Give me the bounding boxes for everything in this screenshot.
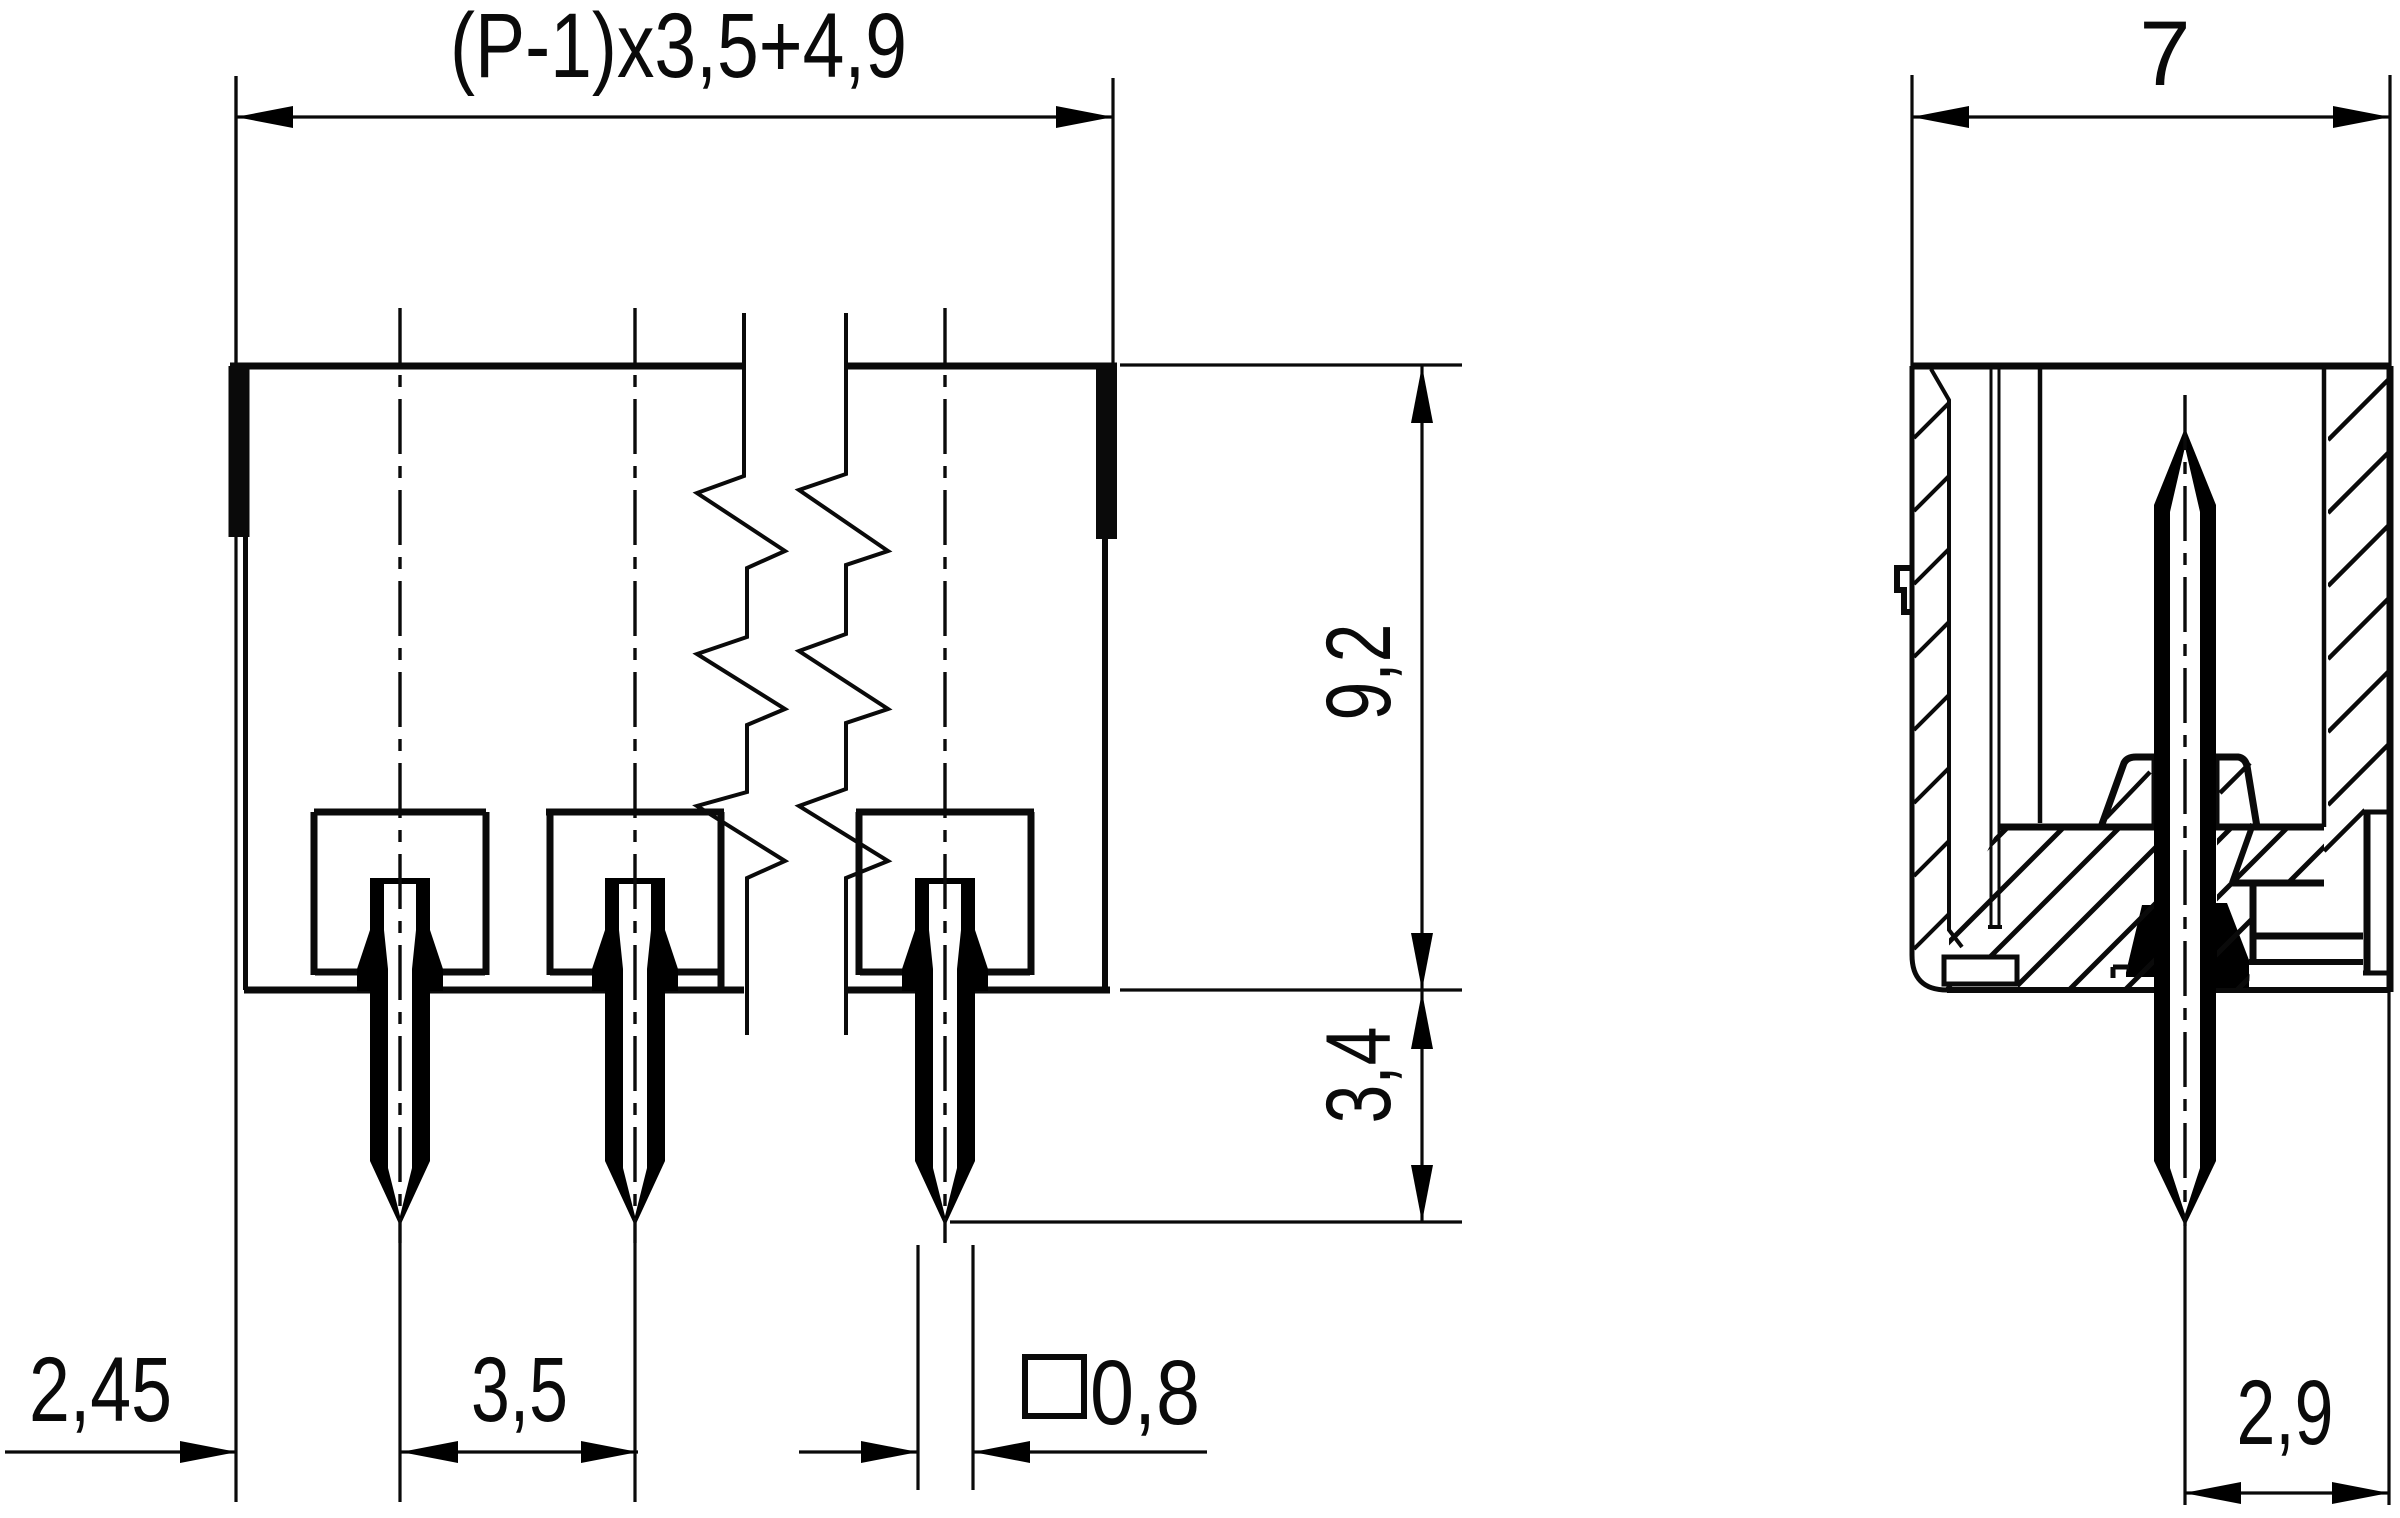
- svg-text:0,8: 0,8: [1090, 1342, 1200, 1444]
- svg-text:3,4: 3,4: [1308, 1027, 1410, 1124]
- svg-text:2,45: 2,45: [29, 1339, 172, 1441]
- svg-text:(P-1)x3,5+4,9: (P-1)x3,5+4,9: [450, 0, 907, 97]
- svg-text:2,9: 2,9: [2237, 1362, 2334, 1464]
- svg-text:7: 7: [2139, 3, 2190, 105]
- svg-text:9,2: 9,2: [1308, 624, 1410, 721]
- svg-text:3,5: 3,5: [471, 1339, 568, 1441]
